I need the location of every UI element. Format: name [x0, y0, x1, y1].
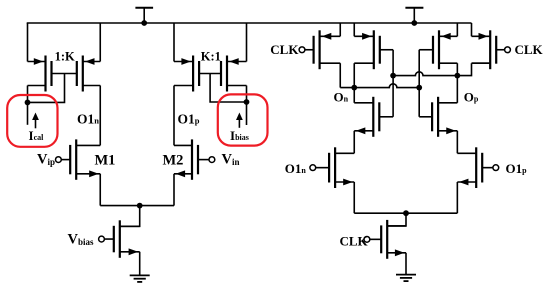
- transistor P5 (cross-coupled PMOS right): [419, 30, 457, 69]
- highlight ellipse around Ical node: [7, 95, 57, 147]
- transistor P1b (1:K right): [77, 56, 100, 92]
- wire rail to P6 source: [471, 23, 473, 36]
- wire cross-couple line On to N2/P5 gates: [418, 50, 420, 117]
- current arrow Ical: [35, 119, 37, 129]
- junction on rail (right VDD): [411, 20, 417, 26]
- transistor P6 (CLK reset right): [472, 30, 511, 69]
- wire net Op with crossover hop: [393, 72, 457, 76]
- svg-text:O1n: O1n: [77, 111, 99, 126]
- svg-text:Ical: Ical: [29, 128, 45, 143]
- wire rail to P3 source: [339, 23, 341, 36]
- svg-text:Vin: Vin: [222, 151, 240, 167]
- wire rail to P2a source: [173, 23, 175, 62]
- wire diode connection gate to Ical node: [28, 74, 65, 103]
- wire gate bus of 1:K mirror: [52, 73, 77, 75]
- svg-text:M1: M1: [95, 152, 116, 168]
- svg-text:Vip: Vip: [37, 151, 55, 167]
- wire diode connection gate to Ibias node: [210, 74, 246, 103]
- wire P3 drain to On: [339, 63, 341, 87]
- node Ibias junction: [244, 99, 250, 105]
- transistor M1: [56, 139, 101, 179]
- transistor N3 (input NMOS O1n): [310, 147, 354, 188]
- wire gate bus of K:1 mirror: [199, 73, 221, 75]
- wire P1a drain to Ical node: [27, 86, 29, 103]
- wire Ical stub: [27, 102, 29, 124]
- transistor N2 (latch NMOS right): [419, 97, 457, 137]
- junction on rail (left VDD): [141, 20, 147, 26]
- svg-text:CLK: CLK: [270, 42, 299, 57]
- wire cross-couple line Op to N1/P4 gates: [392, 50, 394, 117]
- wire tail to Mb drain: [120, 206, 140, 227]
- current arrow Ibias: [238, 119, 240, 128]
- node Ical junction: [25, 100, 31, 106]
- wire P5 drain to Op: [456, 63, 458, 75]
- wire rail to P1a source: [27, 23, 29, 62]
- wire node O1n (P1b drain to M1 drain): [99, 86, 101, 146]
- wire N5 source to ground: [405, 253, 407, 274]
- wire Ibias stub: [246, 102, 248, 125]
- transistor P2b (K:1 right, diode-connected): [221, 56, 247, 92]
- wire P4 drain to On: [353, 63, 355, 87]
- wire rail to P1b source: [99, 23, 101, 62]
- svg-text:CLK: CLK: [515, 42, 544, 57]
- wire rail to P2b source: [246, 23, 248, 62]
- wire tail to N5 drain: [387, 213, 406, 226]
- transistor N1 (latch NMOS left): [354, 97, 393, 137]
- svg-text:Vbias: Vbias: [68, 232, 94, 248]
- svg-text:Op: Op: [464, 90, 479, 105]
- svg-text:M2: M2: [163, 152, 184, 168]
- node tail junction (left): [137, 203, 143, 209]
- svg-text:O1p: O1p: [178, 111, 200, 126]
- wire rail to P5 source: [456, 23, 458, 36]
- svg-text:CLK: CLK: [340, 233, 369, 248]
- transistor P4 (cross-coupled PMOS left): [354, 30, 393, 69]
- power VDD symbol (right): [405, 8, 423, 23]
- wire P2b drain to Ibias node: [246, 86, 248, 103]
- transistor N5 (CLK tail): [364, 220, 406, 259]
- wire rail to P4 source: [353, 23, 355, 36]
- wire net On with crossover hop: [340, 84, 419, 88]
- wire P6 drain corner to Op node: [457, 63, 471, 75]
- transistor Mb (Vbias tail): [99, 220, 140, 257]
- transistor P3 (CLK reset left): [299, 30, 340, 69]
- wire N2 drain to Op: [456, 76, 458, 103]
- transistor N4 (input NMOS O1p): [457, 147, 498, 188]
- wire node O1p (P2a drain to M2 drain): [173, 86, 175, 146]
- wire N4 source down: [456, 182, 458, 213]
- ground (left): [130, 275, 150, 282]
- wire Mb source to ground: [139, 252, 141, 275]
- ground (right): [396, 275, 416, 282]
- wire tail bus (left): [100, 205, 174, 207]
- svg-text:On: On: [334, 90, 349, 105]
- transistor P2a (K:1 left): [174, 56, 199, 92]
- junction Op / P5 P6 drains: [454, 73, 460, 79]
- svg-text:K:1: K:1: [201, 49, 221, 63]
- wire M1 source down to tail: [99, 174, 101, 206]
- wire tail bus (right): [354, 212, 457, 214]
- highlight ellipse around Ibias node: [218, 94, 268, 145]
- wire N1 drain to On: [353, 88, 355, 103]
- wire P6 drain to Op: [472, 62, 491, 64]
- svg-text:O1p: O1p: [506, 161, 528, 176]
- wire VDD rail: [27, 22, 472, 24]
- junction Op / P4 gate line: [390, 73, 396, 79]
- wire M2 source down to tail: [173, 174, 175, 206]
- power VDD symbol (left): [135, 8, 153, 23]
- wire N1 source to N3 drain: [353, 131, 355, 154]
- junction On / P4 drain: [351, 85, 357, 91]
- wire N3 source down: [353, 182, 355, 213]
- transistor P1a (1:K left, diode-connected): [28, 56, 52, 92]
- node tail junction (right): [403, 210, 409, 216]
- junction On / N2 gate line: [416, 85, 422, 91]
- svg-text:1:K: 1:K: [55, 49, 75, 63]
- svg-text:Ibias: Ibias: [230, 128, 249, 143]
- wire N2 source to N4 drain: [456, 131, 458, 154]
- transistor M2: [174, 139, 215, 179]
- svg-text:O1n: O1n: [285, 161, 307, 176]
